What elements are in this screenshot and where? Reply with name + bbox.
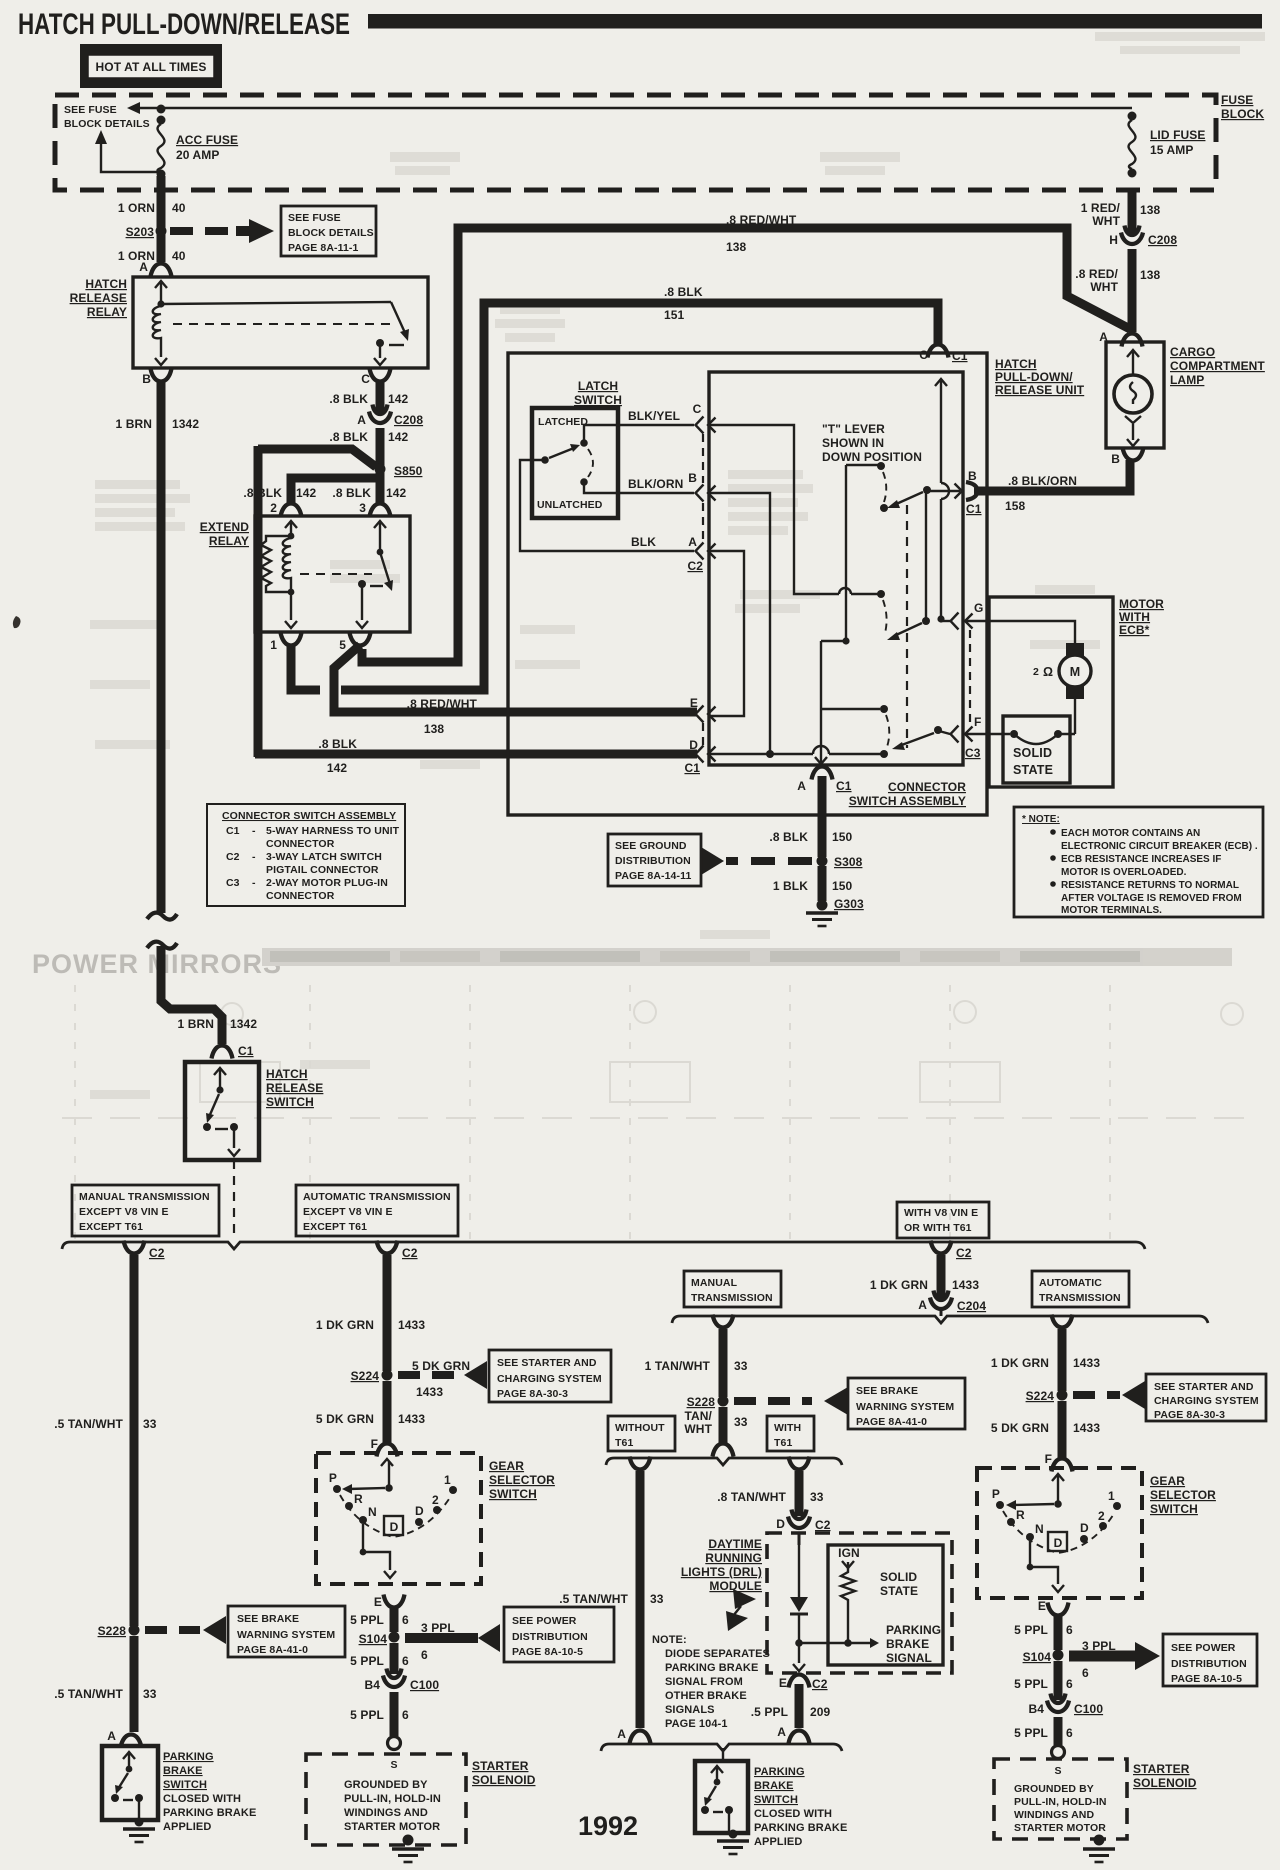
svg-text:C: C xyxy=(693,402,702,416)
svg-text:6: 6 xyxy=(402,1654,409,1668)
svg-text:RELAY: RELAY xyxy=(209,534,249,548)
svg-text:PARKING BRAKE: PARKING BRAKE xyxy=(665,1662,758,1674)
svg-text:BLK/YEL: BLK/YEL xyxy=(628,409,680,423)
motor box: motor with ECB xyxy=(989,597,1113,787)
svg-text:F: F xyxy=(1045,1452,1052,1466)
svg-text:STATE: STATE xyxy=(880,1584,918,1598)
svg-text:150: 150 xyxy=(832,879,853,893)
relay: hatch release relay box xyxy=(133,277,428,368)
svg-text:PAGE 8A-10-5: PAGE 8A-10-5 xyxy=(512,1646,583,1658)
svg-text:SWITCH: SWITCH xyxy=(1150,1502,1198,1516)
svg-text:D: D xyxy=(689,738,698,752)
svg-text:EXCEPT V8 VIN E: EXCEPT V8 VIN E xyxy=(303,1206,393,1218)
splice S224 right xyxy=(1057,1390,1068,1401)
bus line 1 xyxy=(62,1242,1145,1249)
svg-text:GEAR: GEAR xyxy=(489,1459,524,1473)
svg-text:EXCEPT V8 VIN E: EXCEPT V8 VIN E xyxy=(79,1206,169,1218)
svg-text:6: 6 xyxy=(1066,1726,1073,1740)
svg-text:SEE FUSE: SEE FUSE xyxy=(64,104,117,116)
svg-text:STATE: STATE xyxy=(1013,763,1053,777)
svg-text:SOLID: SOLID xyxy=(880,1570,917,1584)
DRL icon xyxy=(733,1589,756,1609)
svg-text:T61: T61 xyxy=(774,1437,792,1449)
svg-text:BLK/ORN: BLK/ORN xyxy=(628,477,683,491)
svg-text:2: 2 xyxy=(1098,1509,1105,1523)
svg-text:HATCH: HATCH xyxy=(266,1067,308,1081)
svg-text:209: 209 xyxy=(810,1705,831,1719)
title bar xyxy=(368,14,1262,29)
wire to parking brake middle xyxy=(722,1748,724,1761)
wire 5 DK GRN 1433 xyxy=(383,1381,392,1444)
svg-text:PAGE 104-1: PAGE 104-1 xyxy=(665,1718,728,1730)
branch C2 automatic transmission xyxy=(377,1241,398,1254)
switch: parking brake switch left xyxy=(102,1746,158,1820)
node xyxy=(157,105,166,114)
ghost bleed-through: POWER MIRRORS banner xyxy=(32,948,1232,979)
wire 1 RED/WHT 138 lid fuse to C208 xyxy=(1128,190,1137,234)
svg-text:SEE STARTER AND: SEE STARTER AND xyxy=(497,1357,597,1369)
svg-text:33: 33 xyxy=(143,1687,157,1701)
box with T61 xyxy=(767,1416,814,1451)
box SEE GROUND DISTRIBUTION xyxy=(608,834,701,886)
svg-text:PAGE 8A-30-3: PAGE 8A-30-3 xyxy=(497,1388,568,1400)
svg-text:5 DK GRN: 5 DK GRN xyxy=(316,1412,374,1426)
branch automatic V8 xyxy=(1052,1315,1073,1328)
box see power distribution xyxy=(504,1607,614,1662)
svg-text:A: A xyxy=(797,779,806,793)
box SEE FUSE BLOCK DETAILS PAGE 8A-11-1 xyxy=(281,206,376,256)
svg-text:E: E xyxy=(779,1676,787,1690)
svg-text:2: 2 xyxy=(270,501,277,515)
ring terminal S xyxy=(388,1737,401,1750)
svg-text:S850: S850 xyxy=(394,464,423,478)
svg-text:5 PPL: 5 PPL xyxy=(1014,1623,1048,1637)
svg-text:EXCEPT T61: EXCEPT T61 xyxy=(303,1221,367,1233)
svg-text:WINDINGS AND: WINDINGS AND xyxy=(1014,1809,1094,1821)
ring terminal S right xyxy=(1052,1746,1065,1759)
svg-text:C100: C100 xyxy=(410,1678,439,1692)
svg-text:6: 6 xyxy=(421,1648,428,1662)
svg-text:PIGTAIL CONNECTOR: PIGTAIL CONNECTOR xyxy=(266,864,379,876)
svg-text:B4: B4 xyxy=(364,1678,380,1692)
svg-text:CARGO: CARGO xyxy=(1170,345,1215,359)
wire 5 PPL 6 xyxy=(390,1643,399,1674)
box manual transmission (V8) xyxy=(684,1271,781,1307)
svg-text:6: 6 xyxy=(1082,1666,1089,1680)
connector A C204 xyxy=(930,1291,952,1310)
svg-text:C: C xyxy=(919,348,928,362)
svg-text:3 PPL: 3 PPL xyxy=(421,1621,455,1635)
svg-text:SHOWN IN: SHOWN IN xyxy=(822,436,884,450)
wire .8 BLK/ORN 158 B to lamp xyxy=(974,460,1130,491)
box with V8 VIN E xyxy=(897,1202,989,1238)
svg-text:SEE STARTER AND: SEE STARTER AND xyxy=(1154,1381,1254,1393)
svg-text:S: S xyxy=(390,1759,397,1771)
solid state inner box xyxy=(828,1545,943,1665)
svg-text:CHARGING SYSTEM: CHARGING SYSTEM xyxy=(497,1373,602,1385)
svg-text:RUNNING: RUNNING xyxy=(705,1551,762,1565)
svg-text:C2: C2 xyxy=(226,851,240,863)
scan speck xyxy=(13,616,21,628)
svg-text:33: 33 xyxy=(650,1592,664,1606)
svg-text:UNLATCHED: UNLATCHED xyxy=(537,499,603,511)
svg-text:1433: 1433 xyxy=(416,1385,443,1399)
svg-text:SWITCH: SWITCH xyxy=(266,1095,314,1109)
svg-text:40: 40 xyxy=(172,249,186,263)
svg-text:WINDINGS AND: WINDINGS AND xyxy=(344,1807,428,1819)
svg-text:WITHOUT: WITHOUT xyxy=(615,1422,665,1434)
svg-text:PARKING BRAKE: PARKING BRAKE xyxy=(754,1822,847,1834)
svg-text:-: - xyxy=(252,825,256,837)
relay contact arm xyxy=(161,302,391,304)
svg-text:C1: C1 xyxy=(238,1044,254,1058)
box see brake warning (middle) xyxy=(848,1378,965,1429)
box see starter and charging xyxy=(489,1350,611,1402)
connector C208 xyxy=(369,405,391,424)
svg-text:CHARGING SYSTEM: CHARGING SYSTEM xyxy=(1154,1395,1259,1407)
svg-text:HATCH PULL-DOWN/RELEASE: HATCH PULL-DOWN/RELEASE xyxy=(18,8,350,41)
svg-text:M: M xyxy=(1070,665,1081,679)
svg-text:C2: C2 xyxy=(812,1677,828,1691)
dashed wire to fuse block details xyxy=(170,227,230,235)
inner wiring: B path xyxy=(708,493,770,752)
svg-text:1 RED/: 1 RED/ xyxy=(1081,201,1121,215)
relay coil xyxy=(155,281,167,288)
svg-text:33: 33 xyxy=(810,1490,824,1504)
svg-text:GROUNDED BY: GROUNDED BY xyxy=(1014,1783,1094,1795)
svg-text:.5 TAN/WHT: .5 TAN/WHT xyxy=(54,1687,123,1701)
svg-text:.8 RED/WHT: .8 RED/WHT xyxy=(407,697,478,711)
svg-text:C1: C1 xyxy=(952,349,968,363)
wire break symbol xyxy=(147,913,177,920)
lamp: cargo compartment lamp xyxy=(1106,342,1164,448)
bus line 5 xyxy=(601,1744,842,1751)
branch C2 manual transmission xyxy=(124,1241,145,1254)
svg-text:* NOTE:: * NOTE: xyxy=(1022,814,1060,825)
wire 1 BLK 150 to ground xyxy=(818,866,827,901)
svg-text:A: A xyxy=(357,413,366,427)
svg-text:PARKING BRAKE: PARKING BRAKE xyxy=(163,1807,256,1819)
svg-text:MOTOR IS OVERLOADED.: MOTOR IS OVERLOADED. xyxy=(1061,867,1187,878)
wire .5 PPL 209 xyxy=(795,1684,804,1728)
svg-text:6: 6 xyxy=(402,1613,409,1627)
svg-text:.8 BLK: .8 BLK xyxy=(329,430,368,444)
svg-text:S228: S228 xyxy=(98,1624,127,1638)
relay: extend relay box xyxy=(255,516,410,632)
svg-text:15 AMP: 15 AMP xyxy=(1150,143,1194,157)
svg-text:5 PPL: 5 PPL xyxy=(350,1613,384,1627)
node xyxy=(1128,112,1137,121)
splice S228 xyxy=(129,1625,140,1636)
svg-text:PAGE 8A-41-0: PAGE 8A-41-0 xyxy=(856,1416,927,1428)
svg-text:MANUAL TRANSMISSION: MANUAL TRANSMISSION xyxy=(79,1191,210,1203)
box see brake warning system xyxy=(228,1606,345,1657)
splice S850 xyxy=(375,464,386,475)
svg-text:BLOCK DETAILS: BLOCK DETAILS xyxy=(288,227,374,239)
switch: parking brake switch middle xyxy=(695,1761,748,1833)
svg-text:1342: 1342 xyxy=(172,417,199,431)
svg-text:BRAKE: BRAKE xyxy=(886,1637,929,1651)
connector dash C3 xyxy=(969,630,971,725)
svg-text:Ω: Ω xyxy=(1043,665,1053,679)
svg-text:-: - xyxy=(252,851,256,863)
svg-text:.8 RED/: .8 RED/ xyxy=(1075,267,1118,281)
svg-text:S104: S104 xyxy=(359,1632,388,1646)
DRL module dashed box xyxy=(767,1533,952,1673)
svg-text:.5 PPL: .5 PPL xyxy=(751,1705,788,1719)
inner wiring: A-E loop xyxy=(708,551,744,716)
svg-text:SELECTOR: SELECTOR xyxy=(489,1473,555,1487)
svg-text:.8 BLK: .8 BLK xyxy=(243,486,282,500)
branch with V8: C2 xyxy=(931,1241,952,1254)
svg-text:A: A xyxy=(617,1727,626,1741)
svg-text:2-WAY MOTOR PLUG-IN: 2-WAY MOTOR PLUG-IN xyxy=(266,877,388,889)
svg-text:20 AMP: 20 AMP xyxy=(176,148,220,162)
svg-text:S228: S228 xyxy=(687,1395,716,1409)
svg-text:33: 33 xyxy=(734,1359,748,1373)
svg-text:.5 TAN/WHT: .5 TAN/WHT xyxy=(54,1417,123,1431)
arrow to see fuse block details xyxy=(136,107,161,109)
box starter solenoid left xyxy=(306,1754,466,1845)
svg-text:SEE BRAKE: SEE BRAKE xyxy=(237,1613,299,1625)
splice S104 xyxy=(389,1632,400,1643)
svg-text:PULL-IN, HOLD-IN: PULL-IN, HOLD-IN xyxy=(344,1793,441,1805)
svg-text:1992: 1992 xyxy=(578,1811,638,1841)
wire S850 to extend relay pins xyxy=(376,469,385,504)
svg-text:5 PPL: 5 PPL xyxy=(1014,1726,1048,1740)
svg-text:D: D xyxy=(415,1504,424,1518)
svg-text:APPLIED: APPLIED xyxy=(163,1821,211,1833)
svg-text:SEE POWER: SEE POWER xyxy=(1171,1642,1236,1654)
wire 142 elbow to left vertical xyxy=(258,449,376,467)
note box xyxy=(1014,807,1263,917)
svg-text:B: B xyxy=(688,471,697,485)
svg-text:A: A xyxy=(139,260,148,274)
svg-text:MOTOR: MOTOR xyxy=(1119,597,1164,611)
wire 142 left vertical down xyxy=(254,446,263,757)
svg-text:HATCH: HATCH xyxy=(995,357,1037,371)
svg-text:33: 33 xyxy=(143,1417,157,1431)
svg-text:PARKING: PARKING xyxy=(886,1623,941,1637)
svg-text:SWITCH: SWITCH xyxy=(754,1794,798,1806)
middle switch arm xyxy=(925,490,927,621)
svg-text:C1: C1 xyxy=(684,761,700,775)
svg-text:DISTRIBUTION: DISTRIBUTION xyxy=(1171,1658,1247,1670)
extend relay coil+resistor xyxy=(285,521,297,528)
svg-text:CONNECTOR SWITCH ASSEMBLY: CONNECTOR SWITCH ASSEMBLY xyxy=(222,810,396,822)
svg-text:S104: S104 xyxy=(1023,1650,1052,1664)
svg-text:D: D xyxy=(1054,1536,1063,1550)
svg-text:SOLENOID: SOLENOID xyxy=(472,1773,536,1787)
inner box: connector switch assembly xyxy=(709,372,963,765)
svg-text:3 PPL: 3 PPL xyxy=(1082,1639,1116,1653)
svg-text:1 ORN: 1 ORN xyxy=(118,249,155,263)
svg-text:SWITCH: SWITCH xyxy=(489,1487,537,1501)
svg-text:C1: C1 xyxy=(836,779,852,793)
bus wire inside fuse block xyxy=(161,107,1132,109)
svg-text:.8 BLK/ORN: .8 BLK/ORN xyxy=(1008,474,1077,488)
svg-text:BLOCK: BLOCK xyxy=(1221,107,1264,121)
svg-text:T61: T61 xyxy=(615,1437,633,1449)
bus line 4 xyxy=(606,1458,842,1465)
wire 5 PPL 6 xyxy=(1054,1717,1063,1745)
svg-text:3-WAY LATCH SWITCH: 3-WAY LATCH SWITCH xyxy=(266,851,382,863)
svg-text:C2: C2 xyxy=(687,559,703,573)
svg-text:3: 3 xyxy=(359,501,366,515)
svg-text:A: A xyxy=(777,1725,786,1739)
splice S203 xyxy=(156,226,167,237)
svg-text:1342: 1342 xyxy=(230,1017,257,1031)
svg-text:SEE POWER: SEE POWER xyxy=(512,1615,577,1627)
svg-text:RELEASE: RELEASE xyxy=(266,1081,323,1095)
svg-text:1433: 1433 xyxy=(1073,1421,1100,1435)
faint scan bleed-through texture xyxy=(90,32,1265,1099)
svg-text:E: E xyxy=(1038,1599,1046,1613)
svg-text:N: N xyxy=(1035,1522,1044,1536)
solid state box (ECB) xyxy=(1003,716,1070,783)
svg-text:C100: C100 xyxy=(1074,1702,1103,1716)
wire .8 RED/WHT 138 to lamp xyxy=(1128,249,1137,332)
svg-text:C204: C204 xyxy=(957,1299,986,1313)
motor feed wire xyxy=(965,621,1075,643)
wire BLK common to A xyxy=(520,460,694,551)
svg-text:1: 1 xyxy=(444,1473,451,1487)
svg-text:1: 1 xyxy=(1108,1489,1115,1503)
connector H C208 xyxy=(1121,226,1143,245)
svg-text:C2: C2 xyxy=(956,1246,972,1260)
svg-text:SIGNALS: SIGNALS xyxy=(665,1704,715,1716)
exit E C2 xyxy=(793,1664,805,1671)
inner wiring: exit wire to A C1 xyxy=(820,641,822,762)
svg-text:1433: 1433 xyxy=(398,1318,425,1332)
svg-text:R: R xyxy=(1016,1508,1025,1522)
svg-text:A: A xyxy=(107,1729,116,1743)
svg-text:WHT: WHT xyxy=(684,1422,712,1436)
B output with hop xyxy=(927,490,960,492)
svg-text:C208: C208 xyxy=(394,413,423,427)
inner wiring: D path xyxy=(708,753,813,755)
wire F to solid state xyxy=(965,733,1010,735)
svg-text:5 PPL: 5 PPL xyxy=(350,1654,384,1668)
svg-text:LAMP: LAMP xyxy=(1170,373,1204,387)
svg-text:2: 2 xyxy=(1033,666,1039,678)
svg-text:1 BLK: 1 BLK xyxy=(773,879,808,893)
svg-text:E: E xyxy=(374,1595,382,1609)
switch: gear selector switch left xyxy=(316,1453,481,1584)
svg-text:SEE GROUND: SEE GROUND xyxy=(615,840,687,852)
svg-text:PAGE 8A-30-3: PAGE 8A-30-3 xyxy=(1154,1409,1225,1421)
svg-text:F: F xyxy=(974,715,981,729)
inner wiring: lower contact line xyxy=(821,708,880,710)
svg-text:142: 142 xyxy=(386,486,407,500)
svg-text:DISTRIBUTION: DISTRIBUTION xyxy=(615,855,691,867)
connector C1 at hatch release switch xyxy=(212,1046,233,1059)
svg-text:P: P xyxy=(992,1487,1000,1501)
wire .8 BLK 150 unit A to S308 xyxy=(818,776,827,857)
svg-text:SIGNAL: SIGNAL xyxy=(886,1651,932,1665)
box without T61 xyxy=(608,1416,675,1451)
extend relay switch xyxy=(374,521,386,528)
svg-text:138: 138 xyxy=(1140,268,1161,282)
svg-text:G303: G303 xyxy=(834,897,864,911)
svg-text:1 DK GRN: 1 DK GRN xyxy=(870,1278,928,1292)
splice S104 right xyxy=(1053,1650,1064,1661)
wire BLK/ORN unlatched to B xyxy=(584,482,694,493)
svg-text:150: 150 xyxy=(832,830,853,844)
svg-text:PAGE 8A-10-5: PAGE 8A-10-5 xyxy=(1171,1673,1242,1685)
svg-text:1: 1 xyxy=(270,638,277,652)
svg-text:A: A xyxy=(688,535,697,549)
relay contact xyxy=(376,339,384,347)
svg-text:.8 BLK: .8 BLK xyxy=(318,737,357,751)
svg-text:142: 142 xyxy=(296,486,317,500)
svg-text:B: B xyxy=(1111,452,1120,466)
svg-text:RELEASE: RELEASE xyxy=(70,291,127,305)
svg-text:5 PPL: 5 PPL xyxy=(1014,1677,1048,1691)
wire TAN/WHT 33 xyxy=(719,1407,728,1444)
svg-text:STARTER MOTOR: STARTER MOTOR xyxy=(344,1821,440,1833)
wire .8 RED/WHT 138: pin5 to E and lamp xyxy=(334,645,697,712)
svg-text:EXCEPT T61: EXCEPT T61 xyxy=(79,1221,143,1233)
svg-text:6: 6 xyxy=(1066,1623,1073,1637)
dashed wire to bus xyxy=(233,1160,235,1240)
svg-text:1433: 1433 xyxy=(1073,1356,1100,1370)
svg-text:.8 BLK: .8 BLK xyxy=(329,392,368,406)
svg-text:138: 138 xyxy=(424,722,445,736)
svg-text:E: E xyxy=(690,696,698,710)
svg-text:1 BRN: 1 BRN xyxy=(115,417,152,431)
svg-text:HOT AT ALL TIMES: HOT AT ALL TIMES xyxy=(96,60,207,74)
svg-text:CONNECTOR: CONNECTOR xyxy=(888,780,966,794)
svg-text:B: B xyxy=(968,469,977,483)
svg-text:142: 142 xyxy=(388,392,409,406)
svg-text:PARKING: PARKING xyxy=(754,1766,805,1778)
svg-text:GEAR: GEAR xyxy=(1150,1474,1185,1488)
wire 5 PPL 6 xyxy=(1054,1616,1063,1650)
svg-text:40: 40 xyxy=(172,201,186,215)
ground G303 xyxy=(817,900,828,911)
svg-text:WITH: WITH xyxy=(774,1422,801,1434)
dashed wire to ground distribution xyxy=(726,857,812,865)
svg-text:PULL-DOWN/: PULL-DOWN/ xyxy=(995,370,1073,384)
up arrow elbow xyxy=(101,138,158,172)
diode xyxy=(798,1545,800,1597)
svg-text:WARNING SYSTEM: WARNING SYSTEM xyxy=(856,1401,954,1413)
svg-text:LIGHTS (DRL): LIGHTS (DRL) xyxy=(681,1565,762,1579)
box see starter and charging right xyxy=(1146,1374,1266,1421)
svg-text:S: S xyxy=(1054,1765,1061,1777)
svg-text:C208: C208 xyxy=(1148,233,1177,247)
wire 1 DK GRN 1433 xyxy=(383,1255,392,1371)
svg-text:COMPARTMENT: COMPARTMENT xyxy=(1170,359,1265,373)
svg-text:ACC FUSE: ACC FUSE xyxy=(176,133,238,147)
svg-text:138: 138 xyxy=(1140,203,1161,217)
svg-text:P: P xyxy=(329,1471,337,1485)
svg-text:.8 BLK: .8 BLK xyxy=(332,486,371,500)
svg-text:HATCH: HATCH xyxy=(85,277,127,291)
svg-text:ECB*: ECB* xyxy=(1119,623,1150,637)
svg-text:RELEASE UNIT: RELEASE UNIT xyxy=(995,383,1085,397)
svg-text:5-WAY HARNESS TO UNIT: 5-WAY HARNESS TO UNIT xyxy=(266,825,400,837)
svg-text:MOTOR TERMINALS.: MOTOR TERMINALS. xyxy=(1061,905,1162,916)
switch arcs dashed xyxy=(883,472,886,502)
unit box: hatch pull-down/release unit xyxy=(508,353,987,815)
svg-text:CONNECTOR: CONNECTOR xyxy=(266,838,335,850)
svg-text:H: H xyxy=(1109,233,1118,247)
branch manual V8 xyxy=(713,1315,734,1328)
entry wire from C1 top xyxy=(935,379,947,386)
svg-text:C1: C1 xyxy=(226,825,240,837)
